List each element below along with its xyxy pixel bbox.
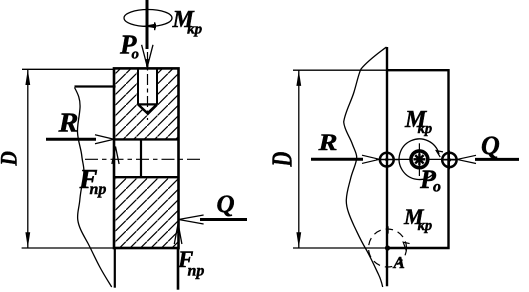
- Q force shaft right: [475, 158, 519, 161]
- svg-text:о: о: [433, 179, 441, 196]
- D bottom arrow: [25, 232, 30, 248]
- node Po disc (force into page): [409, 149, 429, 169]
- dashed rotation circle at A: [369, 229, 407, 267]
- left edge extension below: [114, 248, 116, 288]
- drilled hole shoulder: [138, 103, 157, 105]
- horizontal centerline right: [376, 158, 458, 160]
- svg-text:D: D: [0, 151, 22, 167]
- tick on rotation circle top: [387, 226, 389, 233]
- ellipse arrowhead: [143, 24, 157, 29]
- D bottom extension line: [22, 247, 114, 249]
- joint band upper line: [114, 138, 179, 140]
- Q open arrowhead right: [457, 155, 476, 163]
- D top extension right: [293, 69, 387, 71]
- svg-text:кр: кр: [418, 121, 433, 137]
- R force shaft right: [311, 158, 363, 161]
- point A: [385, 245, 390, 250]
- hole axis centerline: [147, 52, 149, 120]
- svg-text:кр: кр: [418, 218, 433, 234]
- node R circle: [380, 153, 394, 167]
- svg-text:R: R: [57, 108, 78, 138]
- Fpr left open arrowhead: [112, 147, 119, 165]
- svg-text:кр: кр: [187, 21, 203, 37]
- hatched upper body section: [114, 68, 179, 139]
- wavy break curve right: [344, 47, 387, 287]
- svg-text:D: D: [267, 152, 298, 168]
- D top arrow: [25, 69, 30, 85]
- D bottom extension right: [293, 247, 387, 249]
- torque ellipse Mkr: [124, 10, 172, 27]
- drilled hole right wall: [156, 68, 158, 104]
- D dimension line: [27, 69, 29, 248]
- Q open arrowhead: [179, 215, 204, 224]
- svg-text:пр: пр: [188, 263, 205, 280]
- R open arrowhead right: [362, 155, 380, 163]
- svg-text:Q: Q: [481, 131, 500, 160]
- block outline: [114, 68, 179, 248]
- joint band divider: [140, 139, 142, 177]
- joint band lower line: [114, 176, 179, 178]
- wavy break curve left: [75, 88, 112, 288]
- Po open arrowhead: [142, 45, 153, 67]
- svg-text:о: о: [132, 46, 140, 62]
- rectangle outline: [387, 70, 449, 248]
- D top extension line: [22, 68, 114, 70]
- Po crosshair ticks: [418, 143, 420, 176]
- R force shaft: [46, 138, 96, 141]
- horizontal centerline: [85, 158, 200, 160]
- main vertical line: [386, 47, 388, 286]
- svg-text:Q: Q: [217, 191, 235, 218]
- svg-text:R: R: [317, 130, 337, 155]
- D top arrow right: [296, 70, 301, 86]
- drill cone: [138, 104, 157, 113]
- node Q circle: [442, 153, 456, 167]
- right edge extension below (Fpr shaft): [177, 248, 180, 290]
- hatched lower body section: [114, 177, 179, 248]
- Mkr arc around Po: [399, 139, 439, 180]
- svg-text:A: A: [393, 253, 405, 272]
- Q force shaft: [200, 218, 247, 221]
- D dimension line right: [298, 70, 300, 248]
- svg-text:пр: пр: [90, 181, 107, 198]
- R open arrowhead: [95, 135, 114, 144]
- D bottom arrow right: [296, 232, 301, 248]
- rotation arrowhead: [403, 242, 409, 251]
- drilled hole left wall: [137, 68, 139, 104]
- leader line to wavy curve: [75, 85, 116, 87]
- Mkr arc arrowhead: [436, 151, 443, 157]
- torque vector shaft: [146, 0, 149, 49]
- Fpr right open arrowhead: [174, 224, 182, 245]
